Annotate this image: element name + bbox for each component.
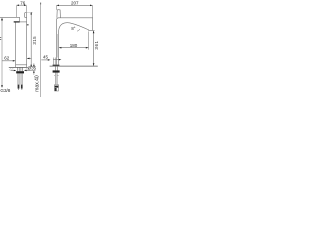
svg-text:G3/8: G3/8 xyxy=(0,88,10,93)
svg-text:207: 207 xyxy=(71,0,79,5)
svg-text:Ø35: Ø35 xyxy=(28,65,37,70)
svg-text:max.40: max.40 xyxy=(35,75,41,92)
svg-text:76: 76 xyxy=(20,0,26,5)
svg-text:8°: 8° xyxy=(71,26,75,31)
svg-text:361: 361 xyxy=(94,40,99,49)
svg-text:45: 45 xyxy=(43,55,48,60)
svg-text:180: 180 xyxy=(70,43,78,48)
svg-text:315: 315 xyxy=(32,36,37,45)
svg-text:62: 62 xyxy=(4,55,10,60)
